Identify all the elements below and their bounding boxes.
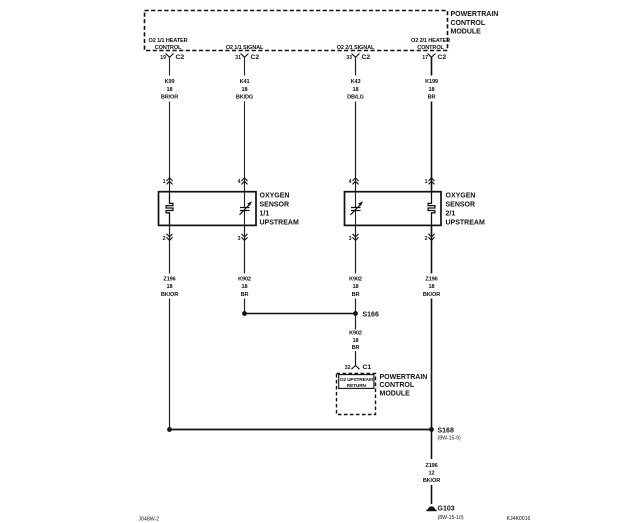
svg-text:OXYGEN: OXYGEN [446, 193, 476, 200]
svg-text:C1: C1 [363, 364, 372, 371]
svg-text:18: 18 [353, 284, 359, 290]
PCM module box (dashed) [145, 11, 448, 51]
svg-text:O2 2/1 HEATER: O2 2/1 HEATER [411, 38, 450, 44]
wire label Z196 18 BK/OR (right) [423, 277, 440, 298]
svg-text:Z196: Z196 [425, 463, 437, 469]
oxygen sensor 2/1 label [446, 193, 485, 227]
wire splice run to S168 [170, 429, 432, 431]
svg-text:SENSOR: SENSOR [446, 202, 476, 209]
svg-text:C2: C2 [176, 54, 185, 61]
svg-text:UPSTREAM: UPSTREAM [260, 219, 299, 226]
svg-text:BR: BR [352, 292, 360, 298]
svg-text:K199: K199 [425, 79, 438, 85]
svg-text:C2: C2 [438, 54, 447, 61]
svg-text:1: 1 [425, 179, 428, 185]
svg-text:K99: K99 [165, 79, 175, 85]
svg-text:K902: K902 [349, 331, 362, 337]
node: O2 1/1 heater control label [149, 38, 188, 51]
svg-text:2/1: 2/1 [446, 210, 456, 217]
svg-text:BR/OR: BR/OR [161, 94, 178, 100]
connector C1 pin 32 [345, 362, 372, 371]
footer sheet code right [507, 516, 531, 522]
svg-text:2: 2 [163, 236, 166, 242]
connector C2 pin 17 [422, 54, 446, 62]
variable sense element inside sensor 2/1 [351, 192, 364, 226]
heater element inside sensor 2/1 [428, 192, 435, 226]
svg-text:4: 4 [238, 179, 241, 185]
node: O2 2/1 heater control label [411, 38, 450, 51]
svg-text:K43: K43 [351, 79, 361, 85]
PCM return module box (dashed) [337, 374, 376, 415]
svg-text:(8W-15-9): (8W-15-9) [438, 436, 462, 442]
svg-text:K902: K902 [238, 277, 251, 283]
wire splice run to S166 [245, 313, 356, 315]
svg-text:S168: S168 [438, 427, 454, 434]
svg-text:O2 UPSTREAM: O2 UPSTREAM [340, 377, 373, 383]
svg-text:C2: C2 [251, 54, 260, 61]
variable sense element inside sensor 1/1 [240, 192, 253, 226]
wire label K41 18 BK/DG [236, 79, 253, 100]
svg-text:18: 18 [429, 87, 435, 93]
wire Z196 segment below sensor 2/1 [431, 225, 433, 429]
svg-text:O2 1/1 SIGNAL: O2 1/1 SIGNAL [226, 45, 264, 51]
wire label Z196 18 BK/OR (left) [161, 277, 178, 298]
wire label Z196 12 BK/OR [423, 463, 440, 484]
junction dot at K902 left [242, 311, 247, 316]
svg-text:C2: C2 [362, 54, 371, 61]
sensor 1/1 pin 2 inline connector [163, 234, 173, 242]
PCM return module label [380, 374, 428, 398]
svg-text:POWERTRAIN: POWERTRAIN [380, 374, 428, 381]
svg-text:BR: BR [428, 94, 436, 100]
junction dot at Z196 left [167, 427, 172, 432]
svg-text:(8W-15-10): (8W-15-10) [438, 515, 464, 521]
svg-text:33: 33 [346, 55, 352, 61]
wire K43 upper segment [355, 57, 357, 191]
wire K902 segment below sensor 1/1 [244, 225, 246, 313]
svg-text:Z196: Z196 [425, 277, 437, 283]
svg-text:MODULE: MODULE [380, 391, 411, 398]
svg-text:2: 2 [425, 236, 428, 242]
svg-text:K902: K902 [349, 277, 362, 283]
wire label K902 18 BR (left) [238, 277, 251, 298]
svg-text:S166: S166 [363, 312, 379, 319]
svg-text:BK/OR: BK/OR [423, 292, 440, 298]
wire Z196 12 below S168 [431, 430, 433, 505]
svg-text:31: 31 [235, 55, 241, 61]
sensor 1/1 pin 4 inline connector [238, 178, 248, 185]
heater element inside sensor 1/1 [166, 192, 173, 226]
svg-text:4: 4 [349, 179, 352, 185]
svg-text:19: 19 [160, 55, 166, 61]
svg-text:12: 12 [429, 471, 435, 477]
svg-text:18: 18 [167, 284, 173, 290]
svg-text:18: 18 [429, 284, 435, 290]
svg-text:3: 3 [238, 236, 241, 242]
wire K41 upper segment [244, 57, 246, 191]
oxygen sensor 1/1 upstream box [159, 192, 257, 226]
svg-text:CONTROL: CONTROL [155, 45, 182, 51]
wire K902 below S166 [355, 314, 357, 363]
svg-text:MODULE: MODULE [451, 28, 482, 35]
svg-text:CONTROL: CONTROL [417, 45, 444, 51]
wire label K199 18 BR [425, 79, 438, 100]
connector C2 pin 31 [235, 54, 259, 62]
wire label K99 18 BR/OR [161, 79, 178, 100]
svg-text:POWERTRAIN: POWERTRAIN [451, 11, 499, 18]
wire K199 upper segment [431, 57, 433, 191]
svg-text:Z196: Z196 [163, 277, 175, 283]
svg-text:CONTROL: CONTROL [380, 382, 415, 389]
svg-text:18: 18 [167, 87, 173, 93]
sensor 2/1 pin 2 inline connector [425, 234, 435, 242]
svg-text:KJ4K0016: KJ4K0016 [507, 516, 531, 522]
svg-text:1/1: 1/1 [260, 210, 270, 217]
svg-text:SENSOR: SENSOR [260, 202, 290, 209]
svg-text:18: 18 [242, 87, 248, 93]
svg-text:1: 1 [163, 179, 166, 185]
svg-text:G103: G103 [438, 505, 455, 512]
svg-text:BK/OR: BK/OR [423, 478, 440, 484]
svg-text:BK/DG: BK/DG [236, 94, 253, 100]
node: O2 2/1 signal label [337, 45, 375, 51]
svg-text:BR: BR [352, 345, 360, 351]
svg-text:J048W-2: J048W-2 [139, 517, 160, 523]
svg-text:RETURN: RETURN [347, 383, 367, 389]
splice S166 [353, 311, 379, 319]
svg-text:18: 18 [353, 338, 359, 344]
oxygen sensor 1/1 label [260, 193, 299, 227]
wire K902 segment below sensor 2/1 [355, 225, 357, 313]
wire K99 upper segment [169, 57, 171, 191]
sensor 1/1 pin 3 inline connector [238, 234, 248, 242]
svg-text:BR: BR [241, 292, 249, 298]
node: O2 1/1 signal label [226, 45, 264, 51]
footer sheet code left [139, 517, 160, 523]
svg-text:O2 2/1 SIGNAL: O2 2/1 SIGNAL [337, 45, 375, 51]
wire label K902 18 BR (below S166) [349, 331, 362, 351]
svg-text:18: 18 [353, 87, 359, 93]
sensor 2/1 pin 1 inline connector [425, 178, 435, 185]
svg-text:BK/OR: BK/OR [161, 292, 178, 298]
svg-text:UPSTREAM: UPSTREAM [446, 219, 485, 226]
splice S168 [429, 427, 461, 442]
svg-text:DB/LG: DB/LG [347, 94, 364, 100]
svg-text:OXYGEN: OXYGEN [260, 193, 290, 200]
svg-text:32: 32 [345, 365, 351, 371]
svg-text:17: 17 [422, 55, 428, 61]
sensor 1/1 pin 1 inline connector [163, 178, 173, 185]
svg-text:CONTROL: CONTROL [451, 20, 486, 27]
wire Z196 left segment below sensor 1/1 [169, 225, 171, 429]
svg-text:3: 3 [349, 236, 352, 242]
wire label K902 18 BR (right) [349, 277, 362, 298]
sensor 2/1 pin 3 inline connector [349, 234, 359, 242]
wire label K43 18 DB/LG [347, 79, 364, 100]
ground G103 [426, 505, 464, 520]
connector C2 pin 33 [346, 54, 370, 62]
svg-text:K41: K41 [240, 79, 250, 85]
connector C2 pin 19 [160, 54, 184, 62]
svg-text:O2 1/1 HEATER: O2 1/1 HEATER [149, 38, 188, 44]
sensor 2/1 pin 4 inline connector [349, 178, 359, 185]
O2 upstream return pin box [339, 375, 374, 390]
svg-text:18: 18 [242, 284, 248, 290]
PCM module label [451, 11, 499, 35]
oxygen sensor 2/1 upstream box [345, 192, 442, 226]
